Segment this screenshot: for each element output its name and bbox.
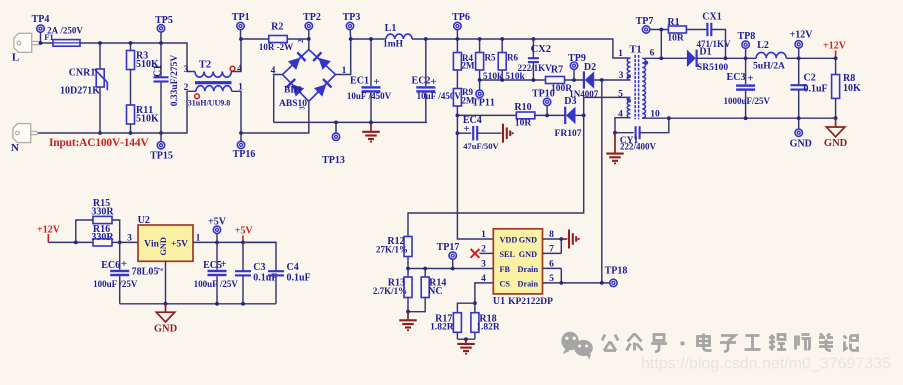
svg-text:GND: GND (790, 139, 812, 150)
wire fuse to T2 pin3 (80, 43, 195, 72)
svg-text:U2: U2 (138, 215, 150, 226)
svg-text:T2: T2 (199, 60, 211, 71)
wire R1 to CX1 (686, 29, 707, 31)
junction pin6 snubber (659, 56, 663, 60)
junction TP2 (307, 37, 311, 41)
resistor R9 2M (453, 89, 461, 107)
svg-text:10K: 10K (843, 83, 861, 94)
wire L1 to T1 pin1 (412, 39, 631, 58)
U1 pin8 to ground (543, 238, 562, 240)
junction R12 FB (406, 267, 410, 271)
svg-text:TP6: TP6 (452, 12, 470, 23)
ground symbol R13 (407, 312, 409, 320)
svg-text:0.33uF/275V: 0.33uF/275V (170, 55, 180, 107)
junction TP8 (744, 56, 748, 60)
svg-text:330R: 330R (91, 232, 114, 243)
wire +12V rail to R16 (48, 241, 93, 243)
svg-text:L: L (12, 52, 19, 64)
svg-text:222/400V: 222/400V (620, 141, 657, 151)
resistor R5 510k (478, 37, 482, 41)
svg-text:GND: GND (519, 250, 537, 259)
resistor R4 2M (456, 39, 458, 53)
svg-text:TP2: TP2 (303, 12, 321, 23)
svg-text:TP8: TP8 (738, 31, 756, 42)
svg-text:TP15: TP15 (150, 151, 173, 162)
junction TP7 R1 (659, 28, 663, 32)
svg-text:10R -2W: 10R -2W (259, 42, 293, 52)
resistor R6 510k (500, 37, 504, 41)
svg-text:TP13: TP13 (322, 155, 345, 166)
wire N to T2 pin2 (38, 91, 197, 133)
svg-text:TP10: TP10 (532, 89, 555, 100)
T2 polarity dot pin4 (230, 66, 235, 71)
resistor R18 1.82R (474, 303, 476, 313)
svg-text:D1: D1 (699, 47, 711, 58)
junction drain node (600, 78, 604, 82)
junction D1 out (724, 56, 728, 60)
svg-text:CX2: CX2 (531, 44, 551, 55)
svg-text:3: 3 (619, 71, 624, 81)
wire bridge plus to TP3 (336, 39, 351, 75)
svg-text:EC1: EC1 (350, 75, 369, 86)
T1 polarity dot pin5 side (627, 99, 631, 103)
U1 pin6 to pin5 (543, 267, 562, 269)
svg-text:6: 6 (650, 48, 655, 58)
junction CY1 left (613, 131, 617, 135)
junction TP3 (349, 37, 353, 41)
wire bridge minus to ground bus (274, 75, 283, 123)
T1 polarity dot pin6 side (644, 61, 648, 65)
svg-text:R5: R5 (485, 52, 496, 62)
IC U1 KP2122DP (493, 229, 542, 294)
wire L to fuse (40, 42, 53, 44)
svg-text:510K: 510K (136, 114, 159, 125)
svg-text:78L05: 78L05 (132, 266, 159, 277)
junction pin10 CY1 (667, 116, 671, 120)
wire drain to TP18 (543, 282, 610, 284)
svg-text:2: 2 (297, 39, 305, 43)
svg-text:10D271K: 10D271K (60, 86, 100, 97)
svg-text:Drain: Drain (518, 279, 539, 288)
ground symbol +12V return (835, 118, 837, 127)
junction R8 bottom (834, 116, 838, 120)
svg-text:L1: L1 (385, 23, 397, 34)
svg-text:EC2: EC2 (412, 75, 431, 86)
test point TP13 (334, 121, 338, 125)
watermark text (602, 335, 618, 351)
svg-text:KP2122DP: KP2122DP (508, 297, 553, 307)
svg-text:Input:AC100V-144V: Input:AC100V-144V (49, 137, 149, 149)
svg-text:+12V: +12V (37, 224, 61, 235)
junction drain TP18 (600, 281, 604, 285)
diode D1 SR5100 (687, 50, 696, 67)
svg-text:3: 3 (299, 106, 307, 110)
svg-text:U1: U1 (493, 296, 505, 307)
wire D1 to L2 (697, 57, 757, 59)
capacitor CX2 222/1KV (532, 37, 536, 41)
wire R10 to D3 (535, 114, 565, 116)
svg-text:FB: FB (500, 265, 511, 274)
junction L node (39, 41, 43, 45)
svg-text:3: 3 (184, 65, 189, 75)
svg-text:R7: R7 (551, 64, 563, 75)
junction R8 top (834, 56, 838, 60)
resistor R13 2.7K/1% (407, 269, 409, 278)
wire R4 to R9 (456, 70, 458, 89)
T1 polarity dot pin3 side (627, 74, 631, 78)
junction EC1 top (369, 37, 373, 41)
wire CX1 to rail (711, 30, 725, 59)
svg-text:TP16: TP16 (233, 149, 256, 160)
svg-text:1mH: 1mH (383, 39, 404, 49)
wire T2 pin1 to TP16 bus (232, 91, 241, 133)
capacitor C2 0.1uF (798, 58, 800, 85)
bridge rectifier BD1 ABS10 (283, 50, 336, 102)
capacitor C4 0.1uF (243, 242, 276, 271)
svg-text:222/1KV: 222/1KV (518, 63, 553, 73)
resistor R14 NC (424, 269, 426, 278)
svg-text:47uF/50V: 47uF/50V (463, 141, 499, 151)
svg-text:0.1uF: 0.1uF (287, 273, 311, 284)
junction R3 top (129, 41, 133, 45)
svg-text:31uH/UU9.8: 31uH/UU9.8 (188, 98, 230, 107)
svg-text:TP11: TP11 (472, 98, 495, 109)
capacitor C3 0.1uF (242, 242, 244, 271)
junction C1 top (159, 41, 163, 45)
test point GND (798, 118, 800, 129)
IC U2 78L05 (138, 225, 193, 261)
svg-text:TP18: TP18 (605, 266, 628, 277)
ground symbol R17R18 (465, 339, 467, 343)
junction +12V TP (797, 56, 801, 60)
wire VDD to U1 pin1 (457, 133, 493, 239)
svg-text:D2: D2 (584, 62, 596, 73)
wire CS to R17 (457, 303, 475, 313)
svg-text:+12V: +12V (790, 29, 814, 40)
resistor R3 510K (130, 43, 132, 51)
svg-text:L2: L2 (757, 40, 769, 51)
svg-text:N: N (11, 142, 19, 154)
junction CX2 rail (532, 78, 536, 82)
svg-text:1: 1 (481, 230, 486, 240)
svg-text:TP3: TP3 (343, 12, 361, 23)
svg-text:+: + (121, 258, 127, 270)
svg-text:3: 3 (127, 234, 132, 244)
junction R14 FB (423, 267, 427, 271)
svg-text:1.82R: 1.82R (476, 323, 500, 333)
ground symbol U1 pin8 (568, 230, 570, 249)
svg-text:GND: GND (824, 138, 848, 149)
wire T1 pin6 rail (645, 57, 688, 59)
resistor R17 1.82R (453, 313, 461, 333)
svg-text:0.1uF: 0.1uF (253, 273, 277, 284)
junction EC4 (456, 131, 460, 135)
junction C1 bottom (159, 131, 163, 135)
svg-text:+: + (220, 258, 226, 270)
capacitor CY1 222/400V (615, 132, 634, 134)
svg-text:10uF /450V: 10uF /450V (347, 91, 392, 101)
test point TP11 (479, 80, 481, 90)
junction +5V TP (215, 241, 219, 245)
junction pin5 (559, 281, 563, 285)
wire snubber riser (660, 30, 662, 59)
wire aux node to T1 pin5 (584, 97, 631, 115)
U1 pin2 no-connect X (471, 249, 480, 258)
watermark wechat icon (561, 332, 593, 360)
wire TP3 to L1 (351, 38, 386, 40)
wire R16 to U2 (112, 241, 138, 243)
junction R5 rail (478, 78, 482, 82)
svg-text:10R: 10R (515, 119, 532, 129)
U1 pin4 CS wire (475, 283, 493, 303)
junction C2 bottom (797, 116, 801, 120)
svg-text:GND: GND (159, 237, 168, 255)
wire R9 to R10 (457, 114, 516, 116)
junction R6 rail (500, 78, 504, 82)
svg-text:1: 1 (618, 49, 623, 59)
junction R13 ground (406, 310, 410, 314)
ground symbol T1 pin4 (614, 133, 616, 153)
junction aux node (582, 114, 586, 118)
U2 ground stem (165, 261, 167, 304)
wire R12 to FB rail (407, 257, 409, 269)
wire R2 to TP2 (287, 38, 309, 40)
wire R17 R18 bottoms (456, 332, 458, 339)
svg-text:NC: NC (428, 286, 442, 297)
svg-text:2: 2 (184, 83, 189, 93)
test point TP16 (239, 131, 243, 135)
junction TP1 (239, 37, 243, 41)
capacitor C1 0.33uF/275V (160, 43, 162, 77)
junction TP10 (545, 114, 549, 118)
svg-text:+5V: +5V (171, 239, 188, 249)
ground symbol bridge (370, 122, 372, 131)
svg-text:TP17: TP17 (437, 242, 460, 253)
svg-text:CX1: CX1 (702, 11, 721, 22)
junction CNR1 top (98, 41, 102, 45)
svg-text:TP1: TP1 (232, 12, 250, 23)
wire L2 to +12V (786, 57, 835, 59)
wire T1 pin4 to CY1 (615, 118, 631, 133)
svg-text:R6: R6 (507, 52, 518, 62)
svg-text:R2: R2 (271, 21, 283, 32)
svg-text:https://blog.csdn.net/m0_37697: https://blog.csdn.net/m0_37697335 (641, 356, 891, 373)
svg-text:100uF /25V: 100uF /25V (93, 279, 138, 289)
wire TP2 to bridge top (308, 39, 310, 50)
svg-text:T1: T1 (629, 45, 641, 56)
wire aux node down to R12 feed (408, 115, 584, 236)
svg-text:GND: GND (154, 324, 178, 335)
wire R7 to D2 (565, 79, 584, 81)
wire TP1 to R2 (241, 38, 269, 40)
svg-text:Drain: Drain (518, 265, 539, 274)
svg-text:1.82R: 1.82R (430, 323, 454, 333)
junction TP17 FB (451, 267, 455, 271)
svg-text:0.1uF: 0.1uF (804, 83, 828, 94)
junction C3 bottom (241, 302, 245, 306)
ground symbol 78L05 (165, 304, 167, 312)
junction R11 bottom (129, 131, 133, 135)
capacitor EC6 100uF/25V (119, 242, 121, 269)
wire D3 to aux node (576, 114, 584, 116)
wire R3-R11 (130, 70, 132, 106)
svg-text:FR107: FR107 (555, 129, 582, 139)
wire EC4 node (456, 115, 458, 133)
svg-text:BD1: BD1 (284, 86, 302, 96)
svg-text:TP5: TP5 (155, 15, 173, 26)
svg-text:+5V: +5V (235, 226, 254, 237)
svg-text:10uF /450V: 10uF /450V (417, 91, 462, 101)
junction TP9 (572, 78, 576, 82)
resistor R8 10K (835, 58, 837, 74)
svg-text:2M: 2M (462, 60, 476, 70)
svg-text:TP4: TP4 (32, 14, 50, 25)
T2 polarity dot pin2 (195, 94, 200, 99)
secondary ground bus (642, 117, 835, 119)
capacitor EC2 10uF/450V (424, 37, 428, 41)
connector N (13, 124, 31, 143)
test point TP18 (610, 279, 617, 286)
svg-text:2: 2 (157, 267, 165, 271)
resistor R11 510K (127, 105, 135, 124)
svg-text:EC6: EC6 (101, 260, 120, 271)
wire T2 pin4 to TP1 (231, 39, 241, 72)
svg-text:Vin: Vin (144, 239, 160, 249)
svg-text:+: + (747, 73, 753, 85)
connector L (14, 33, 32, 52)
wire drain vertical (601, 80, 603, 283)
capacitor EC3 1000uF/25V (745, 58, 747, 84)
resistor R12 27K/1% (404, 237, 412, 257)
+5V ground bus (120, 303, 276, 305)
svg-text:EC5: EC5 (203, 260, 222, 271)
svg-text:CNR1: CNR1 (69, 67, 96, 78)
svg-text:VDD: VDD (500, 235, 518, 244)
wire TP16 bus to bridge (241, 101, 309, 133)
wire U2 out rail (193, 241, 276, 243)
svg-text:27K/1%: 27K/1% (376, 245, 408, 255)
svg-text:SEL: SEL (500, 250, 516, 259)
svg-text:5uH/2A: 5uH/2A (753, 62, 785, 72)
capacitor EC1 10uF/450V (370, 39, 372, 86)
junction ground bus EC1 (369, 121, 373, 125)
svg-text:EC3: EC3 (727, 72, 746, 83)
junction TP6 R4 (456, 37, 460, 41)
svg-text:2.7K/1%: 2.7K/1% (373, 286, 407, 296)
junction CS node (473, 301, 477, 305)
junction R17R18 ground (464, 337, 468, 341)
svg-text:1000uF/25V: 1000uF/25V (724, 96, 771, 106)
svg-text:10R: 10R (667, 34, 684, 44)
junction CNR1 bottom (98, 131, 102, 135)
svg-text:5: 5 (618, 90, 623, 100)
junction R15 left (74, 241, 78, 245)
svg-text:100uF /25V: 100uF /25V (194, 279, 239, 289)
ground bus under bridge (274, 121, 427, 123)
svg-text:+12V: +12V (823, 41, 847, 52)
FB rail (408, 268, 493, 270)
svg-text:C2: C2 (804, 72, 816, 83)
junction R9 bottom (456, 114, 460, 118)
junction EC5 bottom (215, 302, 219, 306)
clamp rail (480, 79, 546, 81)
test point TP15 (160, 133, 162, 142)
wire D2 to T1 pin3 (594, 79, 630, 81)
junction EC3 bottom (744, 116, 748, 120)
capacitor EC5 100uF/25V (216, 242, 218, 269)
junction R15 right EC6 (118, 241, 122, 245)
svg-text:SR5100: SR5100 (697, 63, 728, 73)
svg-text:D3: D3 (564, 96, 576, 107)
junction U2 gnd (164, 302, 168, 306)
svg-text:GND: GND (519, 235, 537, 244)
svg-text:CS: CS (500, 279, 511, 288)
ground symbol EC4 (502, 124, 504, 143)
junction C3 top (241, 241, 245, 245)
svg-text:C1: C1 (153, 65, 164, 77)
